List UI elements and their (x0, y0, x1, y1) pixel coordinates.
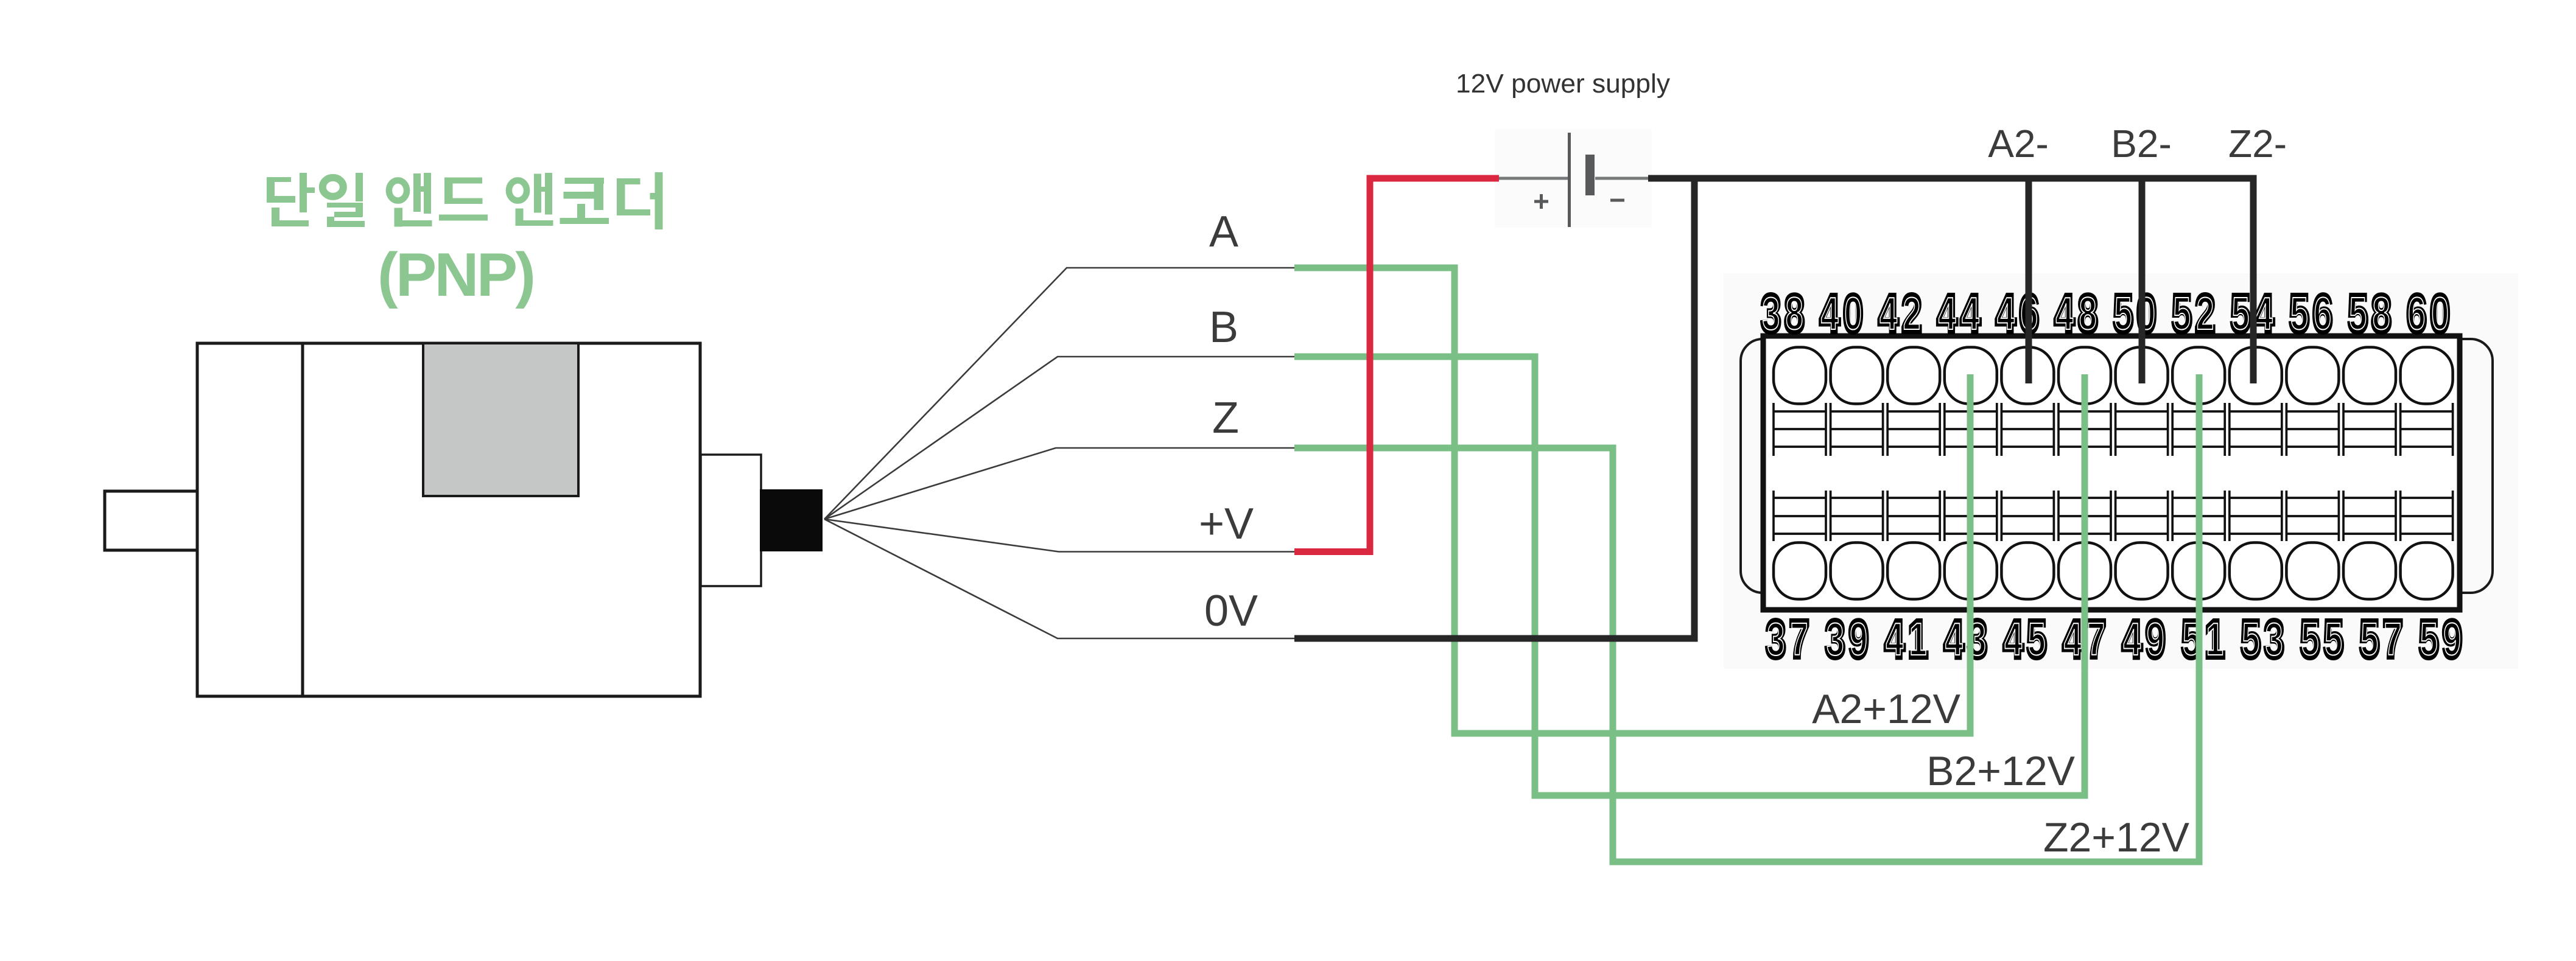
svg-text:5: 5 (2301, 614, 2319, 665)
svg-text:5: 5 (2114, 288, 2132, 340)
svg-text:4: 4 (1879, 288, 1897, 340)
svg-text:+V: +V (1199, 500, 1254, 548)
svg-text:Z: Z (1212, 394, 1239, 442)
svg-text:5: 5 (2242, 614, 2260, 665)
svg-text:5: 5 (2350, 288, 2367, 340)
svg-text:6: 6 (2408, 288, 2426, 340)
svg-text:1: 1 (2206, 614, 2223, 665)
svg-text:6: 6 (2314, 288, 2332, 340)
svg-text:3: 3 (1763, 288, 1780, 340)
svg-text:5: 5 (2325, 614, 2342, 665)
svg-text:4: 4 (2124, 614, 2141, 665)
svg-text:0V: 0V (1204, 587, 1258, 635)
svg-text:8: 8 (1786, 288, 1803, 340)
svg-text:5: 5 (2173, 288, 2191, 340)
svg-text:A2-: A2- (1988, 122, 2049, 166)
svg-text:4: 4 (1821, 288, 1839, 340)
svg-text:4: 4 (1997, 288, 2015, 340)
svg-text:3: 3 (1827, 614, 1844, 665)
svg-text:9: 9 (2147, 614, 2164, 665)
svg-text:5: 5 (2361, 614, 2379, 665)
svg-text:A2+12V: A2+12V (1812, 686, 1961, 732)
svg-text:Z2+12V: Z2+12V (2043, 814, 2190, 861)
svg-text:2: 2 (1903, 288, 1921, 340)
svg-text:4: 4 (2255, 288, 2273, 340)
svg-text:0: 0 (2431, 288, 2449, 340)
svg-text:4: 4 (2064, 614, 2082, 665)
svg-text:3: 3 (1767, 614, 1785, 665)
svg-text:7: 7 (2087, 614, 2105, 665)
svg-text:4: 4 (2056, 288, 2074, 340)
svg-text:4: 4 (1945, 614, 1963, 665)
svg-text:7: 7 (2384, 614, 2402, 665)
svg-text:0: 0 (1844, 288, 1862, 340)
svg-text:8: 8 (2373, 288, 2390, 340)
svg-text:Z2-: Z2- (2228, 122, 2287, 166)
svg-text:2: 2 (2197, 288, 2214, 340)
svg-text:B2+12V: B2+12V (1926, 748, 2076, 794)
svg-text:9: 9 (2443, 614, 2461, 665)
svg-text:9: 9 (1850, 614, 1867, 665)
svg-text:12V power supply: 12V power supply (1456, 69, 1670, 99)
svg-text:B2-: B2- (2111, 122, 2172, 166)
svg-text:5: 5 (2290, 288, 2308, 340)
svg-text:4: 4 (1939, 288, 1956, 340)
svg-text:1: 1 (1909, 614, 1927, 665)
svg-text:5: 5 (2420, 614, 2438, 665)
svg-text:5: 5 (2028, 614, 2046, 665)
svg-text:7: 7 (1791, 614, 1808, 665)
svg-text:8: 8 (2079, 288, 2097, 340)
svg-text:3: 3 (2265, 614, 2283, 665)
svg-text:4: 4 (1886, 614, 1904, 665)
svg-text:A: A (1209, 208, 1238, 256)
svg-text:4: 4 (2005, 614, 2023, 665)
svg-text:5: 5 (2232, 288, 2250, 340)
svg-text:4: 4 (1962, 288, 1979, 340)
svg-text:B: B (1209, 303, 1238, 352)
svg-text:(PNP): (PNP) (377, 241, 536, 309)
